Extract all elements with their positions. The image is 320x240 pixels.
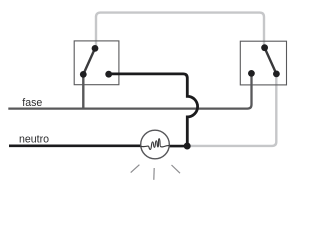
left switch lever xyxy=(83,48,95,74)
right switch top terminal dot xyxy=(261,44,268,51)
lamp filament scribble xyxy=(141,139,169,150)
left switch right terminal dot xyxy=(105,71,112,78)
wire: black wire from left switch L1 terminal, right then down with hop over fase, to lamp junction xyxy=(109,74,198,146)
wire: lamp right side to junction xyxy=(169,145,186,148)
right switch bottom-left terminal dot xyxy=(248,70,255,77)
wire: return traveller (light gray) from lamp junction right then up to right switch bottom-right terminal xyxy=(187,74,276,146)
left switch top terminal dot xyxy=(92,45,99,52)
left switch box xyxy=(74,41,119,85)
lamp bulb circle xyxy=(141,130,170,159)
right switch bottom-right terminal dot xyxy=(273,71,280,78)
right switch lever xyxy=(265,48,277,74)
lamp ray left xyxy=(131,165,140,173)
wire: neutro line (black) from left edge to lamp xyxy=(9,145,142,148)
lamp ray middle xyxy=(153,168,155,180)
wire: top traveller link (light gray) from left switch top terminal to right switch top terminal xyxy=(96,13,264,49)
svg-text:neutro: neutro xyxy=(19,134,49,146)
left switch common terminal dot xyxy=(80,71,87,78)
lamp ray right xyxy=(172,165,181,173)
wire: left switch common terminal down to fase line xyxy=(82,74,84,108)
wire: fase line (dark gray) from left edge to right switch bottom-left terminal xyxy=(8,74,251,109)
junction node: black wire meets gray return at lamp output xyxy=(184,143,191,150)
svg-text:fase: fase xyxy=(22,97,42,109)
right switch box xyxy=(240,41,286,85)
